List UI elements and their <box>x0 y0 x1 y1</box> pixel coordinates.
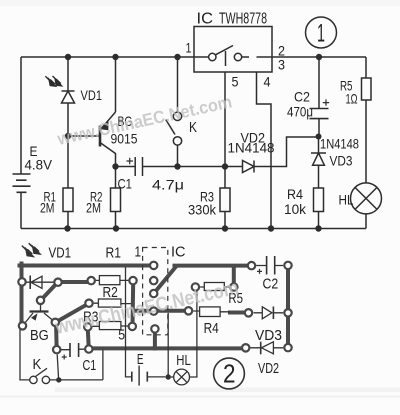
svg-text:VD1: VD1 <box>81 87 103 103</box>
wire R1 branch <box>67 136 69 229</box>
trace resistor column <box>131 281 136 327</box>
label C2 layout <box>263 275 279 292</box>
figure number 2 circle <box>214 358 245 389</box>
wire K to C1 junction <box>50 379 103 381</box>
label R5 layout <box>228 290 243 307</box>
wire battery to bottom rail <box>20 192 22 228</box>
label VD1 layout <box>49 245 72 262</box>
pad C1 right <box>85 345 92 352</box>
svg-text:C2: C2 <box>263 275 279 292</box>
svg-text:2: 2 <box>223 359 236 389</box>
svg-text:2M: 2M <box>86 200 101 216</box>
pad R1 right <box>129 277 136 284</box>
pad IC pin4 <box>150 307 157 314</box>
wire left branch to battery <box>20 57 22 174</box>
pad R5 right <box>230 283 237 290</box>
label VD3 1N4148 <box>320 136 359 152</box>
svg-text:IC: IC <box>171 244 186 261</box>
label R3 layout <box>83 309 98 326</box>
trace VD1 cathode to R1 <box>58 280 91 284</box>
label C1 <box>118 176 133 192</box>
node battery lamp dot <box>166 374 171 379</box>
node K bottom junction <box>174 163 180 169</box>
label HL <box>339 192 354 208</box>
node top K <box>174 54 180 60</box>
wire to pin5 junction <box>178 166 243 168</box>
lamp HL layout <box>171 369 190 385</box>
label R3 <box>200 189 214 205</box>
label VD2 1N4148 <box>228 140 275 156</box>
svg-text:C1: C1 <box>118 176 133 192</box>
svg-text:VD3: VD3 <box>330 153 353 169</box>
label R1 2M <box>40 200 55 216</box>
node pin5 R3 junction <box>222 163 228 169</box>
resistor R1 <box>63 188 73 212</box>
node top output pin2 <box>316 54 322 60</box>
node C2 VD3 junction <box>316 134 322 140</box>
svg-text:1: 1 <box>186 40 192 56</box>
wire right branch R5 <box>365 57 367 183</box>
label R5 <box>340 78 353 94</box>
pad VD2 right <box>284 344 291 351</box>
pad VD3 right <box>284 309 291 316</box>
resistor R5 <box>362 78 372 100</box>
trace BG collector to R2 <box>55 303 89 322</box>
wire BG collector <box>115 153 117 167</box>
label R4 layout <box>204 320 219 337</box>
pad VD1 cathode <box>54 279 61 286</box>
svg-text:TWH8778: TWH8778 <box>219 11 267 28</box>
wire top rail <box>21 56 366 58</box>
svg-text:1: 1 <box>135 244 142 261</box>
transistor BG layout <box>25 305 54 324</box>
label pin 1 <box>186 40 192 56</box>
svg-text:1N4148: 1N4148 <box>228 140 275 156</box>
layout labels <box>30 244 282 378</box>
trace R3 to C1 right <box>88 327 89 349</box>
pad IC pin2 <box>150 277 157 284</box>
label pin 2 <box>278 43 285 59</box>
wire lamp to R5 pad <box>190 292 197 378</box>
label 470u <box>287 104 313 120</box>
label pin 4 <box>264 74 271 90</box>
node VD1 base junction <box>65 133 71 139</box>
label R1 <box>44 189 57 205</box>
node top VD1 <box>65 54 71 60</box>
pad R2 left <box>85 300 92 307</box>
battery E layout <box>132 366 166 386</box>
pad BG emitter <box>19 322 26 329</box>
capacitor C1 4.7u <box>127 157 143 176</box>
node bottom R4 <box>315 225 321 231</box>
pad IC pin3 <box>150 290 157 297</box>
IC footprint dashed box <box>143 248 168 335</box>
pad R1 left <box>88 277 95 284</box>
label R4 <box>287 186 303 202</box>
svg-text:K: K <box>33 356 42 373</box>
wire pin5 <box>224 72 226 166</box>
resistor R4 <box>314 188 324 212</box>
label K <box>189 119 197 136</box>
resistor R1 layout <box>96 276 129 285</box>
label 330k <box>188 202 217 218</box>
label R1 layout <box>106 245 122 262</box>
watermark bottom <box>52 277 240 339</box>
label IC TWH8778 <box>197 11 268 28</box>
svg-text:10k: 10k <box>284 201 307 217</box>
trace VD1 to BG base <box>41 282 59 301</box>
label IC layout <box>171 244 186 261</box>
label R2 layout <box>103 284 118 301</box>
wire pin4 to ground <box>257 72 272 228</box>
svg-text:R4: R4 <box>204 320 219 337</box>
pad R4 right VD3 left <box>245 309 252 316</box>
resistor R3 layout <box>92 322 128 330</box>
wire R2 branch <box>115 167 117 229</box>
schematic text labels <box>25 11 360 218</box>
svg-text:1: 1 <box>317 20 325 48</box>
label 9015 <box>111 131 138 147</box>
trace BG collector to C1 <box>54 323 59 350</box>
pad C1 left <box>53 346 60 353</box>
pad column bottom R3 right <box>129 323 136 330</box>
node bottom R2 <box>113 225 119 231</box>
svg-text:4: 4 <box>264 74 271 90</box>
label C1 layout <box>83 357 97 374</box>
label E layout <box>137 351 144 368</box>
trace top border <box>20 264 154 268</box>
wire BG emitter <box>115 57 117 112</box>
wire bottom rail <box>21 228 366 230</box>
label R2 <box>90 189 103 205</box>
node top BG emitter <box>112 54 118 60</box>
resistor R3 <box>220 188 230 212</box>
svg-text:HL: HL <box>176 352 191 369</box>
svg-text:470μ: 470μ <box>287 104 313 120</box>
svg-text:R4: R4 <box>287 186 303 202</box>
label 4.7u <box>152 177 184 193</box>
label R2 2M <box>86 200 101 216</box>
label K layout <box>33 356 42 373</box>
capacitor C1 layout <box>61 343 85 360</box>
svg-text:1Ω: 1Ω <box>346 91 358 107</box>
svg-text:HL: HL <box>339 192 354 208</box>
wire lamp to bottom rail <box>365 214 367 229</box>
figure number 1 circle <box>306 17 337 48</box>
node C1 left junction <box>112 163 118 169</box>
pad IC pin5 <box>151 325 158 332</box>
svg-text:5: 5 <box>118 327 125 344</box>
svg-text:BG: BG <box>30 327 49 344</box>
pad IC pin1 <box>150 262 157 269</box>
label 10k <box>284 201 307 217</box>
svg-text:1N4148: 1N4148 <box>320 136 359 152</box>
label VD3 layout <box>255 327 282 344</box>
transistor Q BG 9015 <box>100 112 116 154</box>
diode VD3 1N4148 <box>311 137 326 166</box>
svg-text:C2: C2 <box>294 89 310 105</box>
lamp HL <box>351 183 382 214</box>
label VD2 <box>241 130 266 146</box>
svg-text:R2: R2 <box>103 284 118 301</box>
pad VD2 left <box>242 344 249 351</box>
resistor R2 layout <box>94 299 131 307</box>
IC U1 TWH8778 box <box>194 27 272 73</box>
label 1 ohm <box>346 91 358 107</box>
svg-text:3: 3 <box>278 57 285 73</box>
pads <box>18 262 291 354</box>
label BG <box>118 113 133 129</box>
trace R5 riser <box>232 267 236 288</box>
svg-text:E: E <box>137 351 144 368</box>
wire R3 branch <box>224 167 226 229</box>
trace right column <box>286 265 290 347</box>
resistor R2 <box>111 188 121 212</box>
wire VD2 cathode to node <box>254 137 319 167</box>
wire C2 branch <box>318 57 320 137</box>
pad R4 left <box>185 307 192 314</box>
label VD3 <box>330 153 353 169</box>
wire dot up to C1 pad <box>57 354 58 379</box>
label VD2 layout <box>258 360 279 377</box>
switch K <box>166 57 182 167</box>
svg-text:VD2: VD2 <box>258 360 279 377</box>
trace pin5 riser <box>153 329 157 349</box>
wire up to bottom trace <box>102 350 104 380</box>
svg-text:4.7μ: 4.7μ <box>152 177 184 193</box>
node bottom R3 <box>222 225 228 231</box>
wire battery positive drop <box>126 268 132 377</box>
diode VD2 layout <box>250 342 283 355</box>
svg-text:VD1: VD1 <box>49 245 72 262</box>
trace ground row <box>134 309 189 313</box>
trace bottom long <box>89 346 246 350</box>
pad VD1 anode <box>18 278 25 285</box>
pad R5 left <box>192 283 199 290</box>
label 1 in circle <box>317 20 325 48</box>
svg-text:5: 5 <box>232 74 239 90</box>
pad BG collector <box>52 319 59 326</box>
svg-text:K: K <box>189 119 197 136</box>
node bottom pin4 <box>268 225 274 231</box>
resistor R5 layout <box>200 283 229 291</box>
switch K layout <box>30 368 50 383</box>
label 5 layout <box>118 327 125 344</box>
wire dot to ground trace riser <box>167 313 169 377</box>
label VD1 <box>81 87 103 103</box>
svg-text:4.8V: 4.8V <box>25 157 53 173</box>
svg-text:2M: 2M <box>40 200 55 216</box>
diode VD1 layout <box>22 243 42 289</box>
wire C1 row <box>116 166 178 168</box>
label pin 5 <box>232 74 239 90</box>
node bottom R1 <box>64 225 70 231</box>
label HL layout <box>176 352 191 369</box>
trace left border <box>20 264 24 327</box>
pad BG base <box>37 297 44 304</box>
photodiode VD1 <box>45 76 74 103</box>
diode VD2 1N4148 <box>243 161 255 173</box>
label E <box>30 143 38 159</box>
watermark top <box>55 91 234 149</box>
trace pin3 diagonal <box>154 267 176 293</box>
resistor R4 layout <box>193 307 230 317</box>
wire VD1 branch <box>67 57 69 136</box>
label C2 <box>294 89 310 105</box>
svg-text:IC: IC <box>197 11 214 28</box>
pad R3 left <box>84 323 91 330</box>
diode VD3 layout <box>254 307 284 320</box>
node K C1 dot <box>56 377 61 382</box>
battery E 4.8V <box>13 174 31 192</box>
wire left thin drop to K <box>20 328 30 380</box>
label pin 3 <box>278 57 285 73</box>
svg-text:R1: R1 <box>106 245 122 262</box>
trace to C2 <box>175 264 252 268</box>
label BG layout <box>30 327 49 344</box>
trace R4 to VD3 pad <box>230 311 248 315</box>
wire base <box>68 135 99 137</box>
capacitor C2 470u <box>310 99 330 118</box>
label 4.8V <box>25 157 53 173</box>
wire R4 branch <box>318 165 320 228</box>
label 1 layout <box>135 244 142 261</box>
pad C2 left <box>248 262 255 269</box>
svg-text:C1: C1 <box>83 357 97 374</box>
capacitor C2 layout <box>256 256 283 275</box>
wire VD1 row layout <box>22 281 58 283</box>
svg-text:330k: 330k <box>188 202 217 218</box>
svg-text:VD3: VD3 <box>255 327 282 344</box>
pad C2 right <box>284 262 291 269</box>
